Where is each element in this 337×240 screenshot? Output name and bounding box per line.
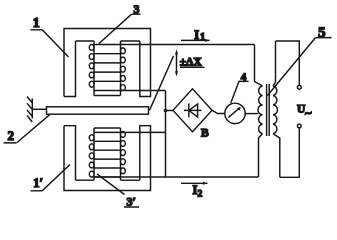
node junction dot	[164, 109, 168, 113]
wire: bottom wire (coil 3' bottom lead) to transformer	[94, 176, 259, 178]
wire: dot to bridge	[166, 110, 174, 112]
wire: vertical bus	[165, 91, 167, 178]
transformer core lines	[267, 84, 270, 136]
svg-text:1: 1	[33, 16, 40, 31]
core 1 (top П-shaped magnetic core)	[64, 29, 151, 97]
terminal bottom	[297, 124, 301, 128]
svg-text:1′: 1′	[33, 176, 43, 190]
coil 3 (top winding)	[89, 41, 125, 96]
fixed support (hatched wall)	[27, 97, 32, 123]
displacement annotation ±ΔX with double arrow	[176, 52, 178, 74]
supply loop to U~ terminals	[276, 41, 300, 177]
wire: meter to transformer centre tap	[245, 113, 258, 115]
armature 2 (movable plate)	[47, 107, 149, 114]
wire: top coil bottom lead to bus	[121, 90, 166, 92]
transformer right primary winding	[273, 41, 280, 177]
wire: top coil top lead to transformer	[121, 44, 255, 46]
wire: bridge to meter	[212, 110, 225, 113]
svg-text:5: 5	[318, 25, 326, 41]
coil 3' (bottom winding)	[89, 128, 125, 180]
svg-text:1: 1	[200, 32, 205, 43]
svg-text:B: B	[201, 128, 209, 140]
svg-text:2: 2	[8, 128, 15, 143]
wire: bottom coil top lead to bus	[121, 131, 166, 133]
rod from support	[32, 108, 46, 110]
svg-text:2: 2	[198, 189, 203, 199]
svg-text:∼: ∼	[305, 108, 313, 118]
terminal top	[297, 85, 301, 89]
diode inside bridge	[184, 104, 202, 118]
transformer 5: left secondary winding	[255, 45, 263, 178]
label I2 and current arrow	[181, 182, 208, 184]
bridge rectifier B (diamond)	[173, 89, 212, 132]
core 1' (bottom П-shaped magnetic core)	[64, 126, 151, 191]
meter 4 (circle with needle)	[225, 103, 245, 123]
leader from armature to annotation	[150, 56, 174, 110]
